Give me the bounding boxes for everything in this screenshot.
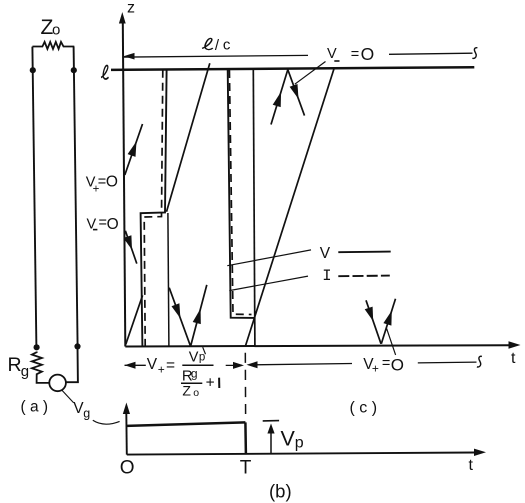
svg-text:+: + <box>372 362 379 376</box>
svg-text:o: o <box>193 387 199 399</box>
svg-text:=: = <box>166 357 175 374</box>
svg-text:(b): (b) <box>269 480 292 501</box>
svg-text:g: g <box>191 367 198 381</box>
svg-text:R: R <box>8 354 22 376</box>
svg-text:c: c <box>223 37 231 54</box>
svg-text:t: t <box>469 457 474 474</box>
svg-text:V: V <box>189 349 199 365</box>
svg-text:g: g <box>21 363 29 380</box>
svg-text:V: V <box>147 356 158 373</box>
svg-text:=: = <box>382 356 390 372</box>
svg-text:+: + <box>158 363 165 377</box>
svg-text:( c ): ( c ) <box>350 400 378 417</box>
svg-text:z: z <box>127 0 135 16</box>
svg-text:V: V <box>327 46 337 62</box>
svg-text:T: T <box>240 458 252 479</box>
svg-text:g: g <box>83 407 90 421</box>
svg-text:+: + <box>206 375 215 392</box>
svg-text:O: O <box>106 173 118 190</box>
svg-text:o: o <box>52 22 60 39</box>
svg-text:O: O <box>107 216 119 233</box>
svg-text:V: V <box>281 426 296 450</box>
svg-text:( a ): ( a ) <box>21 399 49 416</box>
svg-text:t: t <box>511 350 516 367</box>
svg-text:I: I <box>322 267 331 285</box>
svg-text:=: = <box>351 46 359 62</box>
svg-text:V: V <box>320 245 331 262</box>
svg-text:O: O <box>361 44 375 64</box>
svg-text:O: O <box>120 458 135 479</box>
svg-text:O: O <box>391 355 404 374</box>
svg-text:p: p <box>295 435 304 452</box>
svg-text:/: / <box>215 37 220 54</box>
svg-text:Z: Z <box>182 383 191 399</box>
svg-text:p: p <box>199 352 205 364</box>
